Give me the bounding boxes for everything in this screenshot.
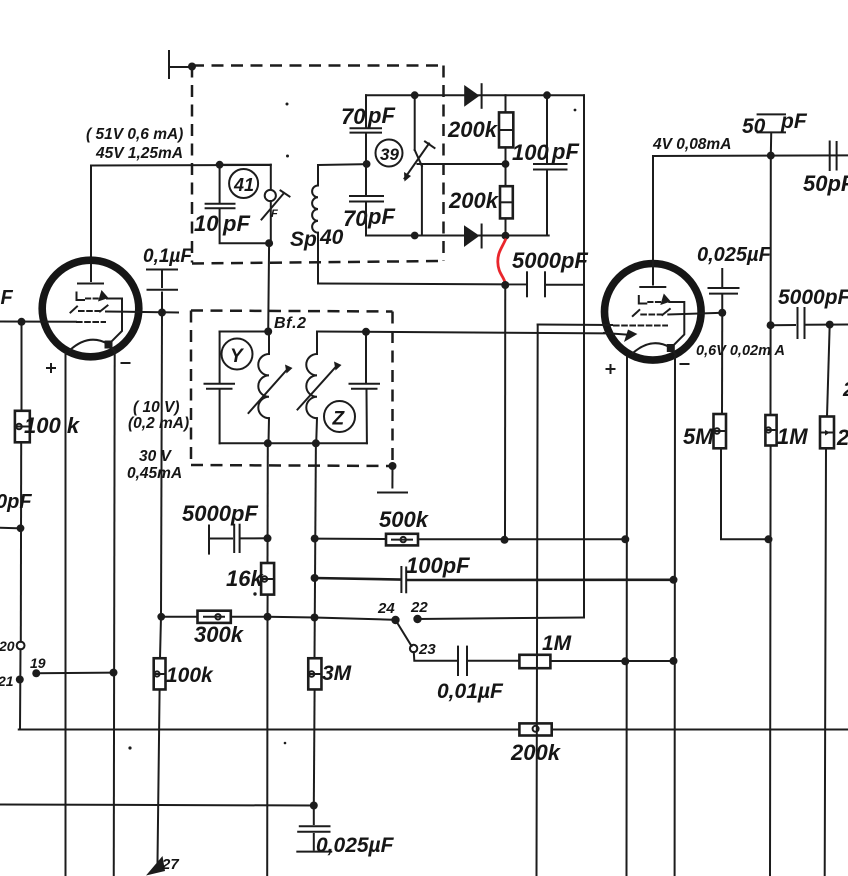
trimmer block 41: top wire — [220, 164, 271, 166]
node — [158, 309, 166, 317]
bus wire avc bottom — [0, 805, 314, 806]
svg-text:5000pF: 5000pF — [512, 248, 588, 273]
svg-text:100k: 100k — [166, 664, 214, 687]
node — [767, 321, 775, 329]
wire V1 g1 input — [0, 321, 76, 323]
resistor R-1M-v — [765, 415, 776, 446]
node — [265, 239, 273, 247]
label minus V1 — [122, 362, 130, 364]
node — [362, 328, 370, 336]
circled Z — [324, 401, 355, 432]
svg-text:50: 50 — [742, 115, 766, 138]
capacitor C-0,025uF-t — [709, 269, 739, 313]
resistor R-3M — [308, 658, 321, 689]
wire Bf2 Y top — [220, 331, 269, 333]
node — [543, 91, 551, 99]
node — [502, 160, 510, 168]
svg-text:300k: 300k — [194, 622, 245, 647]
svg-text:0,025µF: 0,025µF — [316, 834, 395, 857]
svg-text:39: 39 — [380, 145, 399, 164]
wire — [547, 284, 584, 286]
wire 100pF branch — [546, 95, 548, 162]
node — [311, 574, 319, 582]
wire — [20, 442, 22, 642]
svg-text:45V 1,25mA: 45V 1,25mA — [95, 145, 183, 162]
node — [264, 328, 272, 336]
node — [311, 614, 319, 622]
node — [216, 161, 224, 169]
node — [264, 534, 272, 542]
capacitor C-100pF-det — [534, 164, 567, 170]
variable inductor L-Y — [249, 332, 293, 444]
circled Y — [222, 339, 253, 370]
switch contact 24 — [391, 616, 399, 624]
svg-text:500k: 500k — [379, 507, 430, 532]
tube V1 anode — [78, 283, 103, 285]
capacitor C-Y — [205, 384, 235, 389]
svg-text:2: 2 — [836, 425, 848, 450]
svg-text:Z: Z — [332, 409, 346, 430]
wire to switch — [268, 616, 315, 619]
resistor R-2M — [820, 417, 834, 449]
svg-text:41: 41 — [233, 175, 254, 195]
capacitor C-0,1uF — [147, 270, 177, 313]
node — [411, 232, 419, 240]
wire 22 to det rail — [418, 618, 585, 620]
wire Y line below box — [267, 443, 269, 563]
svg-text:5M: 5M — [683, 424, 714, 449]
wire V2 anode lead up — [652, 156, 654, 285]
svg-text:( 10 V): ( 10 V) — [133, 399, 180, 416]
wire — [469, 660, 520, 662]
contact 21 — [16, 676, 24, 684]
coil Sp40 — [312, 165, 318, 284]
svg-text:pF: pF — [367, 103, 395, 128]
wire AVC 5000pF rail — [318, 283, 525, 286]
wire Y-cap branch — [219, 332, 221, 383]
svg-text:Bf.2: Bf.2 — [274, 315, 307, 332]
dashed IF-box bottom edge — [192, 261, 444, 264]
wire Y line down — [267, 243, 270, 331]
svg-text:pF: pF — [367, 204, 395, 229]
dashed IF-box top edge — [192, 64, 444, 67]
wire — [408, 578, 674, 581]
node — [767, 152, 775, 160]
wire Z line below box — [315, 443, 316, 658]
svg-text:16k: 16k — [226, 566, 264, 591]
node — [501, 281, 509, 289]
speck — [128, 746, 131, 749]
wire Z-cap branch — [365, 332, 367, 382]
node — [310, 802, 318, 810]
wire — [219, 391, 221, 444]
wire 100pF row — [315, 578, 400, 580]
dashed Bf.2 box left edge — [190, 311, 193, 466]
svg-text:µF: µF — [0, 287, 14, 309]
svg-text:50pF: 50pF — [803, 171, 848, 196]
wire 19 to cathode line — [36, 672, 113, 675]
svg-text:0,45mA: 0,45mA — [127, 465, 182, 482]
wire below 100pF — [546, 171, 548, 236]
dashed Bf.2 box right edge — [391, 312, 394, 467]
svg-text:pF: pF — [551, 139, 579, 164]
diode D1 — [464, 84, 481, 108]
wire ratio det row — [771, 324, 795, 326]
svg-text:1M: 1M — [542, 632, 572, 655]
wire Bf2 Z top rail — [317, 332, 605, 334]
dashed Bf.2 box top edge — [191, 311, 393, 312]
circled 39 — [376, 140, 403, 167]
svg-text:70: 70 — [341, 104, 366, 129]
node — [312, 439, 320, 447]
wire cathode input arrow — [604, 330, 637, 343]
capacitor C-0,025uF-b — [297, 806, 331, 852]
svg-text:0,1µF: 0,1µF — [143, 246, 193, 267]
svg-text:200k: 200k — [447, 117, 499, 142]
tube V2 grid g3 — [639, 294, 671, 306]
capacitor C-50pF-top — [758, 114, 785, 155]
svg-text:4V 0,08mA: 4V 0,08mA — [652, 136, 731, 153]
wire 300k row — [161, 616, 197, 618]
wire 5M branch — [721, 313, 723, 414]
resistor R-500k — [386, 534, 418, 546]
wire — [19, 649, 22, 729]
resistor R-200k-2 — [505, 164, 507, 186]
wire V2 g2 out to 0.025uF node — [668, 313, 722, 315]
node — [670, 657, 678, 665]
resistor R-16k — [261, 563, 274, 595]
arrow 27 — [146, 856, 165, 876]
svg-text:70: 70 — [343, 206, 368, 231]
wire 39-block left leg mid — [365, 134, 367, 194]
speck — [574, 109, 577, 112]
svg-text:100: 100 — [512, 140, 549, 165]
wire V2 right lead down — [674, 356, 676, 876]
speck — [286, 155, 289, 158]
tube V2 envelope — [605, 264, 702, 361]
node — [264, 439, 272, 447]
svg-text:23: 23 — [418, 641, 436, 658]
switch contact 23 open — [410, 645, 417, 652]
tube V2 g3 link to cathode — [669, 302, 684, 348]
tube V2 grid g2 — [633, 309, 670, 316]
wire det rail right corner — [583, 95, 585, 617]
wire — [315, 618, 396, 620]
wire plate supply row — [653, 154, 848, 157]
node — [826, 321, 834, 329]
dashed IF-box right edge — [442, 66, 445, 262]
wire trimmer39 to diode bus — [418, 163, 506, 165]
speck — [284, 742, 287, 745]
svg-text:1M: 1M — [777, 424, 808, 449]
switch arm 24-23 — [396, 620, 412, 646]
wire anode lead V1 — [90, 166, 92, 282]
resistor R-200k-1 — [505, 95, 507, 112]
wire anode bus V1 — [91, 164, 270, 167]
label plus V2 — [607, 365, 615, 373]
dashed IF-box left edge — [191, 66, 194, 263]
speck — [286, 103, 289, 106]
node — [110, 669, 118, 677]
wire Bf2 bottom rail — [220, 442, 367, 444]
dashed Bf.2 box bottom edge — [191, 465, 393, 466]
wire 39-block left leg lower — [365, 203, 367, 236]
wire grid bias branch — [21, 322, 23, 411]
tube V1 grid g2 — [71, 306, 108, 313]
svg-text:100pF: 100pF — [406, 553, 470, 578]
tube V1 grid g1 dashes — [77, 321, 105, 323]
svg-text:40: 40 — [319, 226, 344, 249]
svg-text:0,025µF: 0,025µF — [697, 244, 772, 266]
wire stub from left edge — [0, 527, 21, 530]
wire — [231, 616, 268, 618]
capacitor C-Z — [350, 384, 380, 389]
resistor R-100k-b — [154, 658, 166, 689]
tube V2 grid g1 dashes — [614, 325, 667, 327]
wire 500k row — [315, 538, 386, 540]
wire V2 g1 branch down — [537, 325, 538, 876]
wire V2 g1 input — [538, 324, 612, 327]
tube V1 cathode — [70, 340, 116, 353]
tube V1 grid g3 — [77, 290, 109, 302]
svg-text:200k: 200k — [448, 188, 500, 213]
wire V1 plate-lead down left — [65, 354, 67, 876]
svg-text:5000pF: 5000pF — [778, 286, 848, 309]
svg-text:10: 10 — [194, 211, 219, 236]
resistor R-300k — [198, 611, 231, 623]
wire — [769, 446, 772, 876]
wire — [418, 538, 625, 540]
svg-text:24: 24 — [377, 600, 395, 617]
tube V1 g3 internal link to cathode — [107, 299, 122, 345]
switch contact 22 — [413, 615, 421, 623]
svg-text:30 V: 30 V — [139, 448, 173, 465]
label plus V1 — [47, 364, 55, 372]
svg-text:3M: 3M — [322, 662, 352, 685]
capacitor C-70pF-top — [351, 128, 382, 132]
svg-text:21: 21 — [0, 673, 14, 689]
resistor R-5M — [714, 414, 727, 448]
wire diode top rail — [366, 94, 584, 96]
resistor R-200k-pot — [519, 723, 551, 735]
bus wire lower — [19, 729, 848, 731]
wire 39-block left leg upper — [365, 95, 367, 127]
svg-text:19: 19 — [30, 655, 46, 671]
capacitor C-10pF — [206, 204, 235, 209]
wire — [160, 617, 161, 659]
wire 2M branch — [827, 325, 830, 417]
node — [765, 535, 773, 543]
svg-text:pF: pF — [222, 211, 250, 236]
capacitor C-5000pF-b — [209, 525, 268, 554]
svg-text:( 51V 0,6 mA): ( 51V 0,6 mA) — [86, 126, 183, 143]
node — [502, 232, 510, 240]
wire 5M bottom to 1M line — [721, 448, 769, 539]
node — [363, 160, 371, 168]
wire coil top — [318, 163, 367, 166]
capacitor C-0,01uF — [458, 647, 467, 675]
tube V2 cathode — [632, 343, 676, 355]
tube V2 anode — [640, 286, 665, 288]
node — [157, 613, 165, 621]
svg-text:22: 22 — [410, 599, 428, 616]
node — [17, 524, 25, 532]
wire down to arrow 27 — [158, 690, 160, 863]
wire — [267, 595, 269, 617]
resistor R-1M-h — [519, 655, 550, 668]
node — [718, 309, 726, 317]
wire V1 cathode lead down — [113, 352, 116, 876]
wire 23 down and right — [414, 652, 457, 661]
node — [311, 535, 319, 543]
svg-text:0pF: 0pF — [0, 491, 32, 513]
red wire — [498, 239, 506, 284]
node — [18, 318, 26, 326]
capacitor C-5000pF-avc — [527, 272, 545, 296]
tube V1 envelope — [42, 260, 139, 357]
node — [411, 91, 419, 99]
circled 41 — [229, 169, 258, 198]
wire diode bottom rail — [366, 235, 549, 237]
svg-text:100 k: 100 k — [24, 413, 81, 438]
svg-text:0,6V 0,02m A: 0,6V 0,02m A — [696, 343, 785, 359]
wire 10pF branch — [219, 165, 221, 203]
node Bf2 box corner — [389, 462, 397, 470]
svg-text:pF: pF — [780, 110, 808, 133]
wire 50pF node down — [770, 156, 772, 415]
wire — [169, 66, 193, 68]
wire — [313, 690, 316, 807]
wire — [366, 391, 368, 444]
trimmer capacitor 39 right leg — [404, 95, 435, 235]
trimmer capacitor 41 — [262, 165, 290, 244]
node — [670, 576, 678, 584]
svg-text:0,01µF: 0,01µF — [437, 680, 504, 703]
wire — [806, 324, 848, 326]
svg-text:27: 27 — [161, 856, 179, 873]
capacitor C-5000pF-r — [798, 308, 805, 338]
wire V1 g2 out to 0.1uF node — [106, 312, 178, 313]
capacitor C-70pF-bottom — [350, 196, 383, 202]
wire AVC vertical from red node — [504, 285, 506, 540]
speck — [253, 592, 256, 595]
node — [621, 657, 629, 665]
svg-text:F: F — [271, 208, 278, 220]
svg-text:5000pF: 5000pF — [182, 501, 258, 526]
svg-text:(0,2 mA): (0,2 mA) — [128, 415, 189, 432]
svg-text:2: 2 — [842, 379, 848, 401]
wire below 10pF — [220, 210, 270, 244]
capacitor C-50pF-series — [830, 142, 837, 171]
node — [501, 536, 509, 544]
variable inductor L-Z — [298, 332, 342, 444]
wire Y line to bottom — [266, 617, 268, 876]
wire — [550, 660, 673, 662]
contact 20 open — [17, 642, 25, 650]
wire 0.1uF line down — [161, 313, 162, 617]
node top-left box corner — [188, 63, 196, 71]
wire — [825, 448, 826, 876]
wire V2 left lead down — [626, 358, 629, 876]
capacitor C-100pF-b — [401, 567, 406, 592]
resistor R-100k-a — [15, 411, 30, 443]
svg-text:Sp: Sp — [290, 228, 317, 251]
ground below Bf2 — [378, 466, 407, 493]
diode D2 — [464, 225, 482, 248]
node — [621, 535, 629, 543]
label minus V2 — [681, 363, 689, 365]
node — [264, 613, 272, 621]
contact 19 — [32, 669, 40, 677]
svg-text:20: 20 — [0, 638, 15, 654]
terminal T-bar top left — [168, 51, 170, 78]
